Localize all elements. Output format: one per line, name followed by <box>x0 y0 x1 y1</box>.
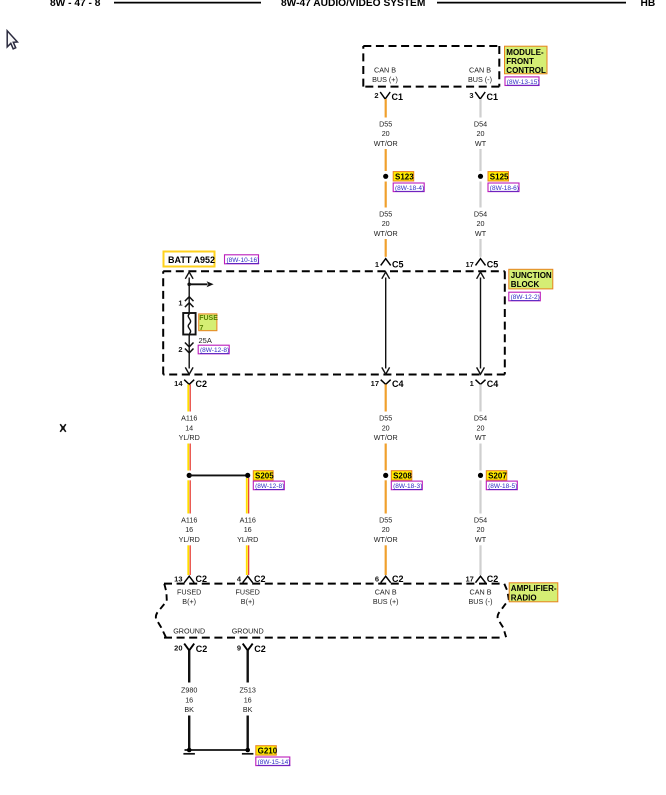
link 8W-13-15 <box>505 77 540 86</box>
svg-text:FRONT: FRONT <box>506 57 534 66</box>
svg-text:D54: D54 <box>474 119 487 128</box>
amplifier-radio box left torn edge <box>156 584 167 637</box>
connector C2 pin 6 <box>375 574 404 584</box>
svg-text:YL/RD: YL/RD <box>237 535 258 544</box>
link 8W-12-8 (fuse) <box>198 345 229 354</box>
link 8W-12-2 <box>509 292 541 301</box>
wire A116 14 YL/RD segment b <box>188 444 190 471</box>
amplifier-radio box right torn edge <box>498 584 509 637</box>
svg-text:(8W-12-8): (8W-12-8) <box>255 483 284 490</box>
pin function CAN B BUS (-) (module) <box>468 66 492 85</box>
svg-text:FUSED: FUSED <box>236 588 260 597</box>
svg-text:S123: S123 <box>395 173 414 182</box>
wire D54 lower segment a <box>479 384 481 411</box>
pin function CAN B BUS (+) (module) <box>372 66 398 85</box>
svg-text:C2: C2 <box>254 644 266 654</box>
svg-text:(8W-15-14): (8W-15-14) <box>258 759 291 766</box>
stray x mark <box>60 424 66 432</box>
svg-text:WT/OR: WT/OR <box>374 139 398 148</box>
svg-text:WT: WT <box>475 433 487 442</box>
svg-text:C1: C1 <box>392 92 404 102</box>
link 8W-12-8 (S205) <box>253 481 284 490</box>
svg-text:17: 17 <box>371 379 379 388</box>
svg-text:20: 20 <box>477 129 485 138</box>
wire D55 upper segment d <box>385 239 387 257</box>
module-front control box <box>363 46 499 87</box>
label S208 <box>391 471 412 481</box>
wire D55 through junction block <box>382 272 390 374</box>
svg-text:WT/OR: WT/OR <box>374 535 398 544</box>
svg-text:8W - 47 - 8: 8W - 47 - 8 <box>50 0 101 9</box>
svg-text:17: 17 <box>465 260 473 269</box>
svg-text:8W-47 AUDIO/VIDEO SYSTEM: 8W-47 AUDIO/VIDEO SYSTEM <box>281 0 425 9</box>
pin function FUSED B(+) (pin 4) <box>236 588 260 606</box>
svg-text:C2: C2 <box>196 644 208 654</box>
connector C4 pin 1 <box>470 379 499 389</box>
label FUSE 7 <box>199 314 219 332</box>
pin function CAN B BUS (-) (amp) <box>469 588 493 606</box>
fuse rating 25A <box>199 336 212 345</box>
label AMPLIFIER-RADIO <box>509 583 558 603</box>
svg-text:A116: A116 <box>181 414 197 423</box>
svg-text:6: 6 <box>375 574 379 583</box>
svg-text:WT/OR: WT/OR <box>374 229 398 238</box>
header page number 8W-47-8 <box>50 0 101 9</box>
svg-text:S207: S207 <box>488 472 507 481</box>
label S123 <box>393 172 414 182</box>
svg-text:YL/RD: YL/RD <box>179 433 200 442</box>
link 8W-15-14 <box>256 757 291 766</box>
svg-text:3: 3 <box>469 91 473 100</box>
pin function GROUND (pin 20) <box>173 627 205 636</box>
label BATT A952 <box>164 252 216 267</box>
svg-text:(8W-18-5): (8W-18-5) <box>488 483 517 490</box>
wire D54 lower segment b <box>479 444 481 471</box>
svg-text:D55: D55 <box>379 119 392 128</box>
pin function GROUND (pin 9) <box>232 627 264 636</box>
connector C1 pin 3 <box>469 91 498 102</box>
svg-text:20: 20 <box>477 525 485 534</box>
wire label D54 20 WT (upper) <box>474 119 487 147</box>
svg-text:(8W-18-4): (8W-18-4) <box>395 185 424 192</box>
wire A116 14 YL/RD segment a <box>188 384 190 411</box>
svg-text:BLOCK: BLOCK <box>511 280 540 289</box>
wire label A116 14 YL/RD <box>179 414 200 443</box>
label S205 <box>253 471 274 481</box>
wire D54 upper segment a <box>479 99 481 118</box>
connector C2 pin 17 <box>465 574 498 584</box>
svg-text:MODULE-: MODULE- <box>506 48 544 57</box>
wire D54 upper segment c <box>479 182 481 208</box>
svg-text:BK: BK <box>184 705 194 714</box>
svg-text:1: 1 <box>375 260 379 269</box>
connector C2 pin 14 <box>174 379 207 389</box>
wire label Z513 16 BK <box>240 686 256 715</box>
wire A116 16 YL/RD right segment a <box>247 478 249 514</box>
splice S123 <box>383 174 388 179</box>
svg-text:D55: D55 <box>379 210 392 219</box>
svg-text:14: 14 <box>174 379 183 388</box>
svg-text:D54: D54 <box>474 210 487 219</box>
svg-text:YL/RD: YL/RD <box>179 535 200 544</box>
connector C5 pin 17 <box>465 259 498 270</box>
svg-text:GROUND: GROUND <box>173 627 205 636</box>
svg-text:GROUND: GROUND <box>232 627 264 636</box>
svg-text:C2: C2 <box>487 574 499 584</box>
label JUNCTION BLOCK <box>509 269 553 289</box>
svg-text:(8W-12-2): (8W-12-2) <box>511 294 540 301</box>
pin function FUSED B(+) (pin 13) <box>177 588 201 606</box>
amplifier-radio box top edge <box>164 583 504 585</box>
wire D54 upper segment d <box>479 239 481 257</box>
svg-text:BK: BK <box>243 705 253 714</box>
svg-text:4: 4 <box>237 574 242 583</box>
svg-text:2: 2 <box>374 91 378 100</box>
fuse terminal pin 1 (double chevron up) <box>178 297 193 308</box>
svg-text:14: 14 <box>185 423 193 432</box>
connector C2 pin 20 <box>174 643 207 653</box>
svg-text:C5: C5 <box>392 259 404 269</box>
svg-text:WT: WT <box>475 139 487 148</box>
mouse cursor <box>7 31 17 49</box>
wire Z513 segment b <box>246 716 248 751</box>
wire batt feed (junction block internal) <box>185 272 193 374</box>
svg-text:20: 20 <box>477 423 485 432</box>
splice S207 <box>478 473 483 478</box>
wire D55 upper segment b <box>385 149 387 171</box>
amplifier-radio box bottom edge <box>164 637 504 639</box>
svg-text:20: 20 <box>477 219 485 228</box>
svg-text:1: 1 <box>470 379 474 388</box>
header title 8W-47 AUDIO/VIDEO SYSTEM <box>281 0 425 9</box>
wire D55 upper segment a <box>385 99 387 118</box>
svg-text:20: 20 <box>382 423 390 432</box>
wire A116 16 YL/RD left segment b <box>188 545 190 575</box>
svg-text:C2: C2 <box>254 574 266 584</box>
header rule right <box>437 2 626 4</box>
svg-text:16: 16 <box>244 525 252 534</box>
wire Z980 segment a <box>188 650 190 682</box>
wire label D54 20 WT (above amp) <box>474 515 487 544</box>
svg-text:S125: S125 <box>490 173 509 182</box>
junction block box <box>163 271 505 374</box>
svg-text:16: 16 <box>244 695 252 704</box>
wire label A116 16 YL/RD (left) <box>179 515 200 544</box>
wire A116 16 YL/RD right segment b <box>247 545 249 575</box>
svg-text:BATT A952: BATT A952 <box>168 255 215 265</box>
svg-text:BUS (+): BUS (+) <box>372 75 398 84</box>
wire D55 lower segment a <box>385 384 387 411</box>
svg-text:FUSE: FUSE <box>199 315 218 322</box>
wire D55 lower segment d <box>385 545 387 575</box>
svg-text:CAN B: CAN B <box>374 66 396 75</box>
svg-text:B(+): B(+) <box>241 597 255 606</box>
link 8W-18-4 <box>393 183 424 192</box>
wire label D55 20 WT/OR (above amp) <box>374 515 398 544</box>
wire Z980 segment b <box>188 716 190 751</box>
wire label Z980 16 BK <box>181 686 197 715</box>
svg-text:HB: HB <box>641 0 656 9</box>
ground tick left <box>183 753 195 755</box>
svg-text:(8W-18-3): (8W-18-3) <box>393 483 422 490</box>
svg-text:C2: C2 <box>196 574 208 584</box>
fuse F7 <box>183 313 195 335</box>
svg-text:WT/OR: WT/OR <box>374 433 398 442</box>
connector C1 pin 2 <box>374 91 403 102</box>
svg-text:Z980: Z980 <box>181 686 197 695</box>
wire label D55 20 WT/OR (above C5) <box>374 210 398 238</box>
svg-text:D55: D55 <box>379 515 392 524</box>
fuse terminal pin 2 (double chevron down) <box>178 343 193 355</box>
svg-text:BUS (+): BUS (+) <box>373 597 399 606</box>
svg-text:20: 20 <box>174 643 182 652</box>
svg-text:C4: C4 <box>487 379 499 389</box>
svg-text:CAN B: CAN B <box>469 66 491 75</box>
wire label D55 20 WT/OR (lower) <box>374 414 398 443</box>
ground tick right <box>242 753 254 755</box>
svg-text:WT: WT <box>475 229 487 238</box>
svg-text:G210: G210 <box>258 747 278 756</box>
svg-text:D54: D54 <box>474 414 487 423</box>
svg-text:S205: S205 <box>255 472 274 481</box>
svg-text:C1: C1 <box>487 92 499 102</box>
branch arrow to other circuits <box>189 281 213 287</box>
svg-text:17: 17 <box>465 574 473 583</box>
svg-text:S208: S208 <box>393 472 412 481</box>
svg-text:WT: WT <box>475 535 487 544</box>
splice S205 <box>187 473 251 478</box>
link 8W-10-16 <box>225 255 260 264</box>
svg-text:(8W-18-6): (8W-18-6) <box>490 185 519 192</box>
wire D55 lower segment c <box>385 480 387 513</box>
svg-text:7: 7 <box>200 325 204 332</box>
svg-text:C4: C4 <box>392 379 404 389</box>
wire D55 upper segment c <box>385 182 387 208</box>
header rule left <box>114 2 261 4</box>
svg-text:JUNCTION: JUNCTION <box>511 271 552 280</box>
svg-text:RADIO: RADIO <box>511 593 537 602</box>
svg-text:A116: A116 <box>240 515 256 524</box>
connector C2 pin 4 <box>237 574 266 584</box>
wire label A116 16 YL/RD (right) <box>237 515 258 544</box>
svg-text:(8W-13-15): (8W-13-15) <box>507 79 540 86</box>
header code HB <box>641 0 656 9</box>
wire D54 lower segment c <box>479 480 481 513</box>
svg-text:25A: 25A <box>199 336 212 345</box>
svg-text:C5: C5 <box>487 259 499 269</box>
link 8W-18-5 <box>486 481 517 490</box>
svg-text:A116: A116 <box>181 515 197 524</box>
link 8W-18-3 <box>391 481 422 490</box>
wire label D55 20 WT/OR (upper) <box>374 119 398 147</box>
svg-text:(8W-10-16): (8W-10-16) <box>227 257 260 264</box>
svg-text:20: 20 <box>382 525 390 534</box>
svg-text:20: 20 <box>382 219 390 228</box>
svg-text:BUS (-): BUS (-) <box>469 597 493 606</box>
svg-text:2: 2 <box>178 345 182 354</box>
connector C5 pin 1 <box>375 259 404 270</box>
connector C2 pin 9 <box>237 643 266 653</box>
connector C4 pin 17 <box>371 379 404 389</box>
wire A116 16 YL/RD left segment a <box>188 480 190 513</box>
wire D54 through junction block <box>477 272 485 374</box>
svg-text:B(+): B(+) <box>182 597 196 606</box>
svg-text:CAN B: CAN B <box>375 588 397 597</box>
svg-text:16: 16 <box>185 525 193 534</box>
link 8W-18-6 <box>488 183 519 192</box>
pin function CAN B BUS (+) (amp) <box>373 588 399 606</box>
wire D54 upper segment b <box>479 149 481 171</box>
label MODULE-FRONT CONTROL <box>505 46 548 75</box>
svg-text:BUS (-): BUS (-) <box>468 75 492 84</box>
svg-text:AMPLIFIER-: AMPLIFIER- <box>511 584 557 593</box>
svg-text:D54: D54 <box>474 515 487 524</box>
wire label D54 20 WT (lower) <box>474 414 487 443</box>
wire label D54 20 WT (above C5) <box>474 210 487 238</box>
svg-text:CAN B: CAN B <box>470 588 492 597</box>
junction node on batt feed <box>187 283 191 287</box>
svg-text:C2: C2 <box>392 574 404 584</box>
label S207 <box>486 471 507 481</box>
ground bus G210 <box>185 748 251 753</box>
svg-text:FUSED: FUSED <box>177 588 201 597</box>
splice S208 <box>383 473 388 478</box>
svg-text:Z513: Z513 <box>240 686 256 695</box>
svg-text:CONTROL: CONTROL <box>506 66 546 75</box>
label G210 <box>256 746 278 756</box>
wire D55 lower segment b <box>385 444 387 471</box>
svg-text:16: 16 <box>185 695 193 704</box>
wire Z513 segment a <box>246 650 248 682</box>
connector C2 pin 13 <box>174 574 207 584</box>
wire D54 lower segment d <box>479 545 481 575</box>
svg-text:9: 9 <box>237 643 241 652</box>
svg-text:C2: C2 <box>196 379 208 389</box>
svg-text:13: 13 <box>174 574 182 583</box>
svg-text:(8W-12-8): (8W-12-8) <box>200 347 229 354</box>
label S125 <box>488 172 509 182</box>
svg-text:20: 20 <box>382 129 390 138</box>
splice S125 <box>478 174 483 179</box>
svg-text:D55: D55 <box>379 414 392 423</box>
svg-text:1: 1 <box>178 299 182 308</box>
